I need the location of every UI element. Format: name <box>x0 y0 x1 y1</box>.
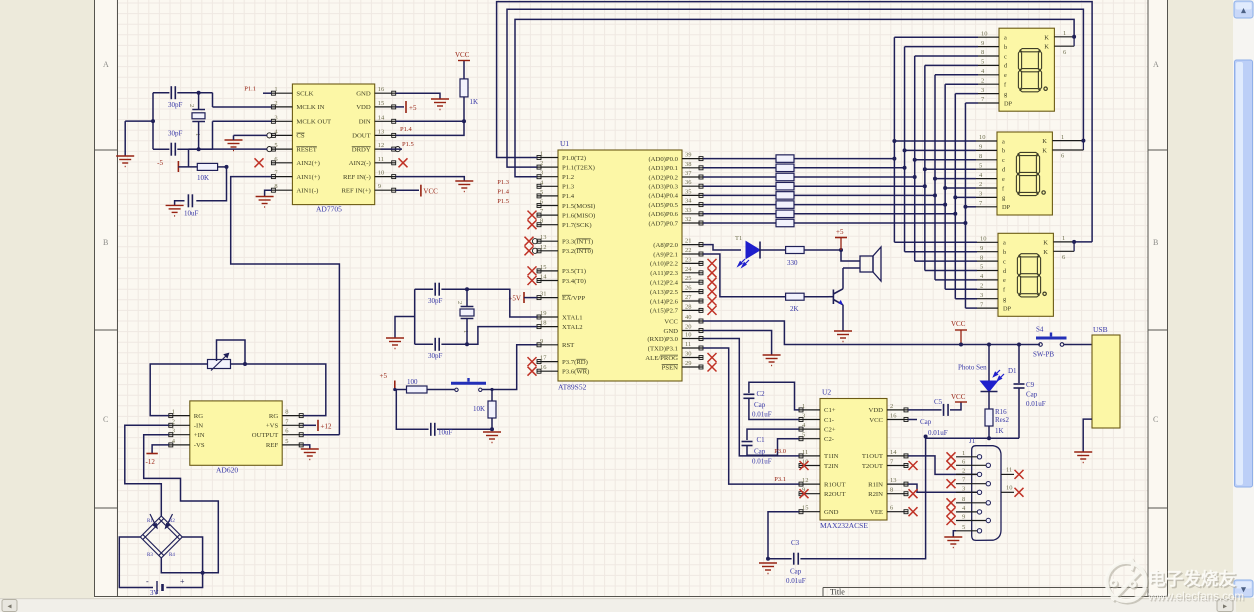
junction <box>225 165 229 169</box>
capacitor 10uF <box>431 423 435 436</box>
svg-text:P3.5(T1): P3.5(T1) <box>562 268 586 275</box>
svg-text:2: 2 <box>456 301 463 304</box>
wire <box>955 298 977 300</box>
svg-text:P1.7(SCK): P1.7(SCK) <box>562 222 592 229</box>
svg-text:T2OUT: T2OUT <box>862 463 883 470</box>
svg-text:Title: Title <box>830 588 845 597</box>
wire <box>198 93 200 109</box>
svg-text:13: 13 <box>378 128 385 135</box>
svg-text:www.elecfans.com: www.elecfans.com <box>1147 590 1244 603</box>
svg-text:C1: C1 <box>757 436 766 444</box>
svg-text:C: C <box>103 415 108 424</box>
wire <box>178 166 197 168</box>
svg-text:b: b <box>1002 148 1005 155</box>
wire <box>935 279 977 281</box>
capacitor 30pF bottom <box>171 143 175 156</box>
resistor R4 <box>776 182 794 190</box>
svg-text:AT89S52: AT89S52 <box>558 383 587 392</box>
svg-text:0.01uF: 0.01uF <box>752 458 772 466</box>
svg-text:9: 9 <box>540 338 543 345</box>
svg-text:+VS: +VS <box>266 423 279 430</box>
svg-text:39: 39 <box>685 152 692 159</box>
wire <box>915 159 976 161</box>
wire <box>152 93 154 150</box>
svg-text:K: K <box>1043 239 1048 246</box>
svg-text:100: 100 <box>407 378 418 386</box>
junction <box>987 343 991 347</box>
svg-text:U2: U2 <box>822 388 831 397</box>
wire <box>747 429 799 440</box>
wire <box>524 297 537 299</box>
no-erc <box>708 268 717 277</box>
wire <box>925 270 977 272</box>
wire VCC rail <box>703 321 1040 345</box>
svg-text:27: 27 <box>685 294 692 301</box>
svg-text:P3.0: P3.0 <box>774 448 786 455</box>
svg-text:10uF: 10uF <box>438 429 453 437</box>
svg-text:10: 10 <box>979 134 986 141</box>
ground <box>256 197 274 208</box>
wire <box>703 222 776 224</box>
svg-text:-: - <box>146 577 149 586</box>
wire <box>945 83 978 85</box>
scrollbar corner <box>1236 598 1254 612</box>
wire <box>905 251 977 253</box>
wire <box>794 213 955 215</box>
svg-text:SCLK: SCLK <box>296 91 313 98</box>
svg-text:1: 1 <box>540 151 543 158</box>
svg-text:330: 330 <box>787 259 798 267</box>
wire <box>794 158 894 160</box>
svg-text:0.01uF: 0.01uF <box>1026 400 1046 408</box>
junction <box>987 436 991 440</box>
svg-text:2: 2 <box>981 77 984 84</box>
svg-text:(AD4)P0.4: (AD4)P0.4 <box>648 193 678 200</box>
svg-text:-IN: -IN <box>194 423 203 430</box>
wire <box>804 249 841 251</box>
scrollbar left button <box>2 600 17 612</box>
J1 pin 7 <box>986 482 990 486</box>
resistor R1 <box>776 155 794 163</box>
wire <box>908 419 917 421</box>
wire <box>189 148 268 150</box>
wire <box>794 204 945 206</box>
wire <box>437 428 492 430</box>
svg-text:1K: 1K <box>470 98 479 106</box>
svg-text:2: 2 <box>980 283 983 290</box>
junction <box>959 343 963 347</box>
J1 pin 10 <box>1001 491 1014 493</box>
wire loop <box>217 340 246 364</box>
svg-text:(TXD)P3.1: (TXD)P3.1 <box>648 345 678 352</box>
J1 pin 2 <box>977 472 981 476</box>
svg-text:EA/VPP: EA/VPP <box>562 295 585 302</box>
svg-text:VCC: VCC <box>455 51 470 59</box>
svg-text:10: 10 <box>1006 484 1013 491</box>
svg-text:(A13)P2.5: (A13)P2.5 <box>650 289 679 296</box>
svg-text:1: 1 <box>1063 30 1066 37</box>
wire <box>1064 344 1092 346</box>
wire <box>303 434 339 436</box>
speaker LS1 <box>860 256 873 272</box>
wire <box>945 288 977 290</box>
wire <box>1018 388 1020 438</box>
svg-text:8: 8 <box>979 153 982 160</box>
switch S4 <box>1039 343 1043 347</box>
junction <box>490 388 493 391</box>
connector J1 DB9 <box>972 446 1001 541</box>
svg-text:K: K <box>1042 148 1047 155</box>
scrollbar thumb <box>1235 60 1253 487</box>
svg-text:PSEN: PSEN <box>662 364 679 371</box>
ground <box>834 331 852 342</box>
svg-text:电子发烧友: 电子发烧友 <box>1148 569 1236 589</box>
wire <box>794 185 925 187</box>
svg-text:R2IN: R2IN <box>868 491 883 498</box>
wire <box>841 250 860 261</box>
junction <box>839 248 843 252</box>
svg-text:P1.6(MISO): P1.6(MISO) <box>562 212 595 219</box>
junction <box>953 212 957 216</box>
wire <box>161 558 218 573</box>
svg-text:(RXD)P3.0: (RXD)P3.0 <box>647 336 678 343</box>
svg-text:REF: REF <box>266 442 279 449</box>
svg-text:8: 8 <box>962 496 965 503</box>
svg-text:30pF: 30pF <box>428 352 443 360</box>
svg-text:AD7705: AD7705 <box>316 205 342 214</box>
wire <box>212 93 214 107</box>
svg-text:b: b <box>1003 249 1006 256</box>
svg-text:(AD5)P0.5: (AD5)P0.5 <box>648 202 678 209</box>
svg-text:9: 9 <box>981 40 984 47</box>
svg-text:P1.5(MOSI): P1.5(MOSI) <box>562 203 595 210</box>
wire <box>800 437 925 559</box>
svg-text:14: 14 <box>378 114 385 121</box>
svg-text:2: 2 <box>962 467 965 474</box>
svg-text:5: 5 <box>274 142 277 149</box>
svg-text:11: 11 <box>378 156 384 163</box>
wire <box>703 204 776 206</box>
connector USB <box>1092 335 1120 428</box>
wire <box>894 36 978 38</box>
svg-text:30pF: 30pF <box>428 297 443 305</box>
svg-text:c: c <box>1003 258 1006 265</box>
svg-text:2: 2 <box>890 403 893 410</box>
J1 pin 4 <box>977 510 981 514</box>
svg-text:a: a <box>1004 35 1007 42</box>
junction <box>903 166 907 170</box>
svg-text:+12: +12 <box>321 422 332 430</box>
svg-text:Cap: Cap <box>754 401 766 409</box>
svg-text:R2OUT: R2OUT <box>824 491 846 498</box>
junction <box>243 362 247 366</box>
vertical scrollbar track <box>1233 0 1254 598</box>
power VCC <box>458 60 470 62</box>
wire <box>212 121 214 149</box>
wire <box>463 61 465 79</box>
no-erc <box>708 278 717 287</box>
svg-text:(A14)P2.6: (A14)P2.6 <box>650 298 679 305</box>
ground <box>386 338 404 349</box>
svg-text:+5: +5 <box>836 228 844 236</box>
svg-text:ALE/PROG: ALE/PROG <box>645 355 678 362</box>
junction <box>892 157 896 161</box>
capacitor C9 <box>1014 384 1025 388</box>
svg-text:C2+: C2+ <box>824 426 836 433</box>
no-erc <box>947 516 956 525</box>
svg-text:5: 5 <box>802 432 805 439</box>
svg-text:14: 14 <box>890 449 897 456</box>
junction <box>201 571 205 575</box>
no-erc <box>1015 470 1024 479</box>
wire <box>794 176 915 178</box>
svg-text:36: 36 <box>685 179 692 186</box>
wire <box>263 92 271 94</box>
wire <box>894 241 977 243</box>
wire <box>265 190 272 196</box>
svg-text:0.01uF: 0.01uF <box>928 429 948 437</box>
svg-text:14: 14 <box>540 274 547 281</box>
resistor 2K <box>786 293 805 300</box>
svg-text:GND: GND <box>824 509 839 516</box>
svg-text:P3.7(RD): P3.7(RD) <box>562 359 588 366</box>
wire <box>988 426 990 438</box>
junction <box>197 91 201 95</box>
wire <box>965 102 978 104</box>
svg-text:C3: C3 <box>791 539 800 547</box>
svg-text:+IN: +IN <box>194 432 205 439</box>
svg-text:5: 5 <box>285 438 288 445</box>
wire <box>950 402 961 410</box>
no-erc <box>528 357 537 366</box>
bus wire seg0 <box>893 37 895 242</box>
bus wire seg7 <box>964 103 966 308</box>
scrollbar up button <box>1234 1 1253 18</box>
svg-text:2: 2 <box>188 104 195 107</box>
bus wire seg2 <box>914 56 916 261</box>
junction <box>462 119 466 123</box>
svg-text:R1OUT: R1OUT <box>824 481 846 488</box>
wire P1.1 to display2 K <box>507 9 1083 167</box>
J1 pin 3 <box>977 490 981 494</box>
svg-text:22: 22 <box>685 247 692 254</box>
svg-text:33: 33 <box>685 207 692 214</box>
wire <box>908 409 942 411</box>
wire <box>842 305 844 331</box>
junction <box>465 342 469 346</box>
svg-text:11: 11 <box>685 341 691 348</box>
svg-text:Photo Sen: Photo Sen <box>958 364 987 372</box>
svg-text:DIN: DIN <box>359 119 371 126</box>
wire <box>491 418 493 429</box>
svg-text:2: 2 <box>979 181 982 188</box>
junction <box>151 119 155 123</box>
svg-text:e: e <box>1004 72 1007 79</box>
wire <box>491 390 493 402</box>
svg-text:T1OUT: T1OUT <box>862 453 883 460</box>
wire <box>915 55 978 57</box>
wire <box>441 327 537 345</box>
transistor Q1 <box>833 289 843 305</box>
wire <box>703 185 776 187</box>
J1 pin 6 <box>986 463 990 467</box>
svg-text:8: 8 <box>981 49 984 56</box>
svg-text:9: 9 <box>378 183 381 190</box>
svg-text:P1.4: P1.4 <box>562 193 575 200</box>
svg-text:RG: RG <box>194 413 203 420</box>
resistor R8 <box>776 219 794 227</box>
junction <box>197 147 201 151</box>
wire <box>905 46 978 48</box>
svg-text:11: 11 <box>1006 466 1012 473</box>
wire <box>427 389 455 391</box>
wire <box>303 445 310 449</box>
capacitor 10uF <box>188 194 192 207</box>
svg-text:10K: 10K <box>473 405 485 413</box>
wire <box>1018 345 1020 384</box>
svg-text:10: 10 <box>980 236 987 243</box>
svg-text:c: c <box>1004 53 1007 60</box>
no-erc <box>708 363 717 372</box>
ground <box>166 205 184 216</box>
svg-text:30pF: 30pF <box>168 101 183 109</box>
no-erc <box>528 367 537 376</box>
junction <box>963 205 967 209</box>
J1 pin 9 <box>986 518 990 522</box>
svg-text:P1.4: P1.4 <box>400 126 412 133</box>
wire <box>303 424 316 426</box>
svg-text:(AD2)P0.2: (AD2)P0.2 <box>648 174 678 181</box>
svg-text:12: 12 <box>378 142 385 149</box>
wire <box>1074 241 1092 243</box>
svg-text:+: + <box>180 577 185 586</box>
photodiode D1 <box>981 381 998 392</box>
svg-text:5: 5 <box>962 524 965 531</box>
svg-text:REF IN(+): REF IN(+) <box>341 188 370 195</box>
svg-text:(AD3)P0.3: (AD3)P0.3 <box>648 184 678 191</box>
svg-text:17: 17 <box>540 355 547 362</box>
svg-text:12: 12 <box>802 477 809 484</box>
svg-text:C1+: C1+ <box>824 407 836 414</box>
wire <box>794 194 935 196</box>
svg-text:3: 3 <box>980 292 983 299</box>
wire <box>843 267 860 269</box>
svg-text:DP: DP <box>1002 204 1011 211</box>
svg-text:J1: J1 <box>969 437 976 445</box>
junction <box>923 167 927 171</box>
wire <box>119 537 153 588</box>
wire <box>124 121 126 156</box>
svg-text:XTAL2: XTAL2 <box>562 324 583 331</box>
svg-text:(A15)P2.7: (A15)P2.7 <box>650 308 679 315</box>
wire <box>153 92 169 94</box>
svg-text:8: 8 <box>890 487 893 494</box>
ground <box>431 99 449 110</box>
wire <box>395 390 429 430</box>
svg-text:1: 1 <box>802 403 805 410</box>
svg-text:C5: C5 <box>934 398 943 406</box>
wire <box>233 135 235 140</box>
svg-text:RESET: RESET <box>296 146 316 153</box>
junction <box>892 139 896 143</box>
wire <box>703 331 772 356</box>
svg-text:P1.5: P1.5 <box>402 141 414 148</box>
wire <box>703 158 776 160</box>
wire <box>760 249 786 251</box>
wire <box>466 289 468 306</box>
no-erc <box>800 461 809 470</box>
svg-text:3V: 3V <box>150 589 159 597</box>
svg-text:R2: R2 <box>169 519 175 524</box>
svg-text:AIN2(+): AIN2(+) <box>296 160 319 167</box>
resistor 10K <box>488 401 496 418</box>
wire <box>703 245 741 250</box>
svg-text:2: 2 <box>172 418 175 425</box>
svg-text:D1: D1 <box>1008 367 1017 375</box>
no-erc <box>1015 488 1024 497</box>
svg-text:25: 25 <box>685 275 692 282</box>
wire <box>945 187 976 189</box>
svg-text:Cap: Cap <box>920 418 932 426</box>
svg-text:3: 3 <box>540 170 543 177</box>
no-erc <box>528 266 537 275</box>
svg-text:AIN1(+): AIN1(+) <box>296 174 319 181</box>
wire <box>441 289 537 317</box>
bridge resistors <box>140 514 182 558</box>
wire <box>908 484 978 492</box>
svg-text:37: 37 <box>685 170 692 177</box>
wire <box>415 288 433 290</box>
svg-text:R3: R3 <box>147 553 153 558</box>
svg-text:3: 3 <box>981 87 984 94</box>
svg-text:U1: U1 <box>560 139 569 148</box>
svg-text:AIN2(-): AIN2(-) <box>349 160 371 167</box>
wire <box>396 106 404 108</box>
wire <box>905 149 976 151</box>
wire <box>381 148 403 150</box>
svg-text:AD620: AD620 <box>216 466 238 475</box>
svg-text:9: 9 <box>962 514 965 521</box>
svg-text:(A12)P2.4: (A12)P2.4 <box>650 280 679 287</box>
ground <box>944 537 962 548</box>
wire P3.1 <box>703 348 799 484</box>
bus wire seg4 <box>934 75 936 280</box>
svg-text:(AD1)P0.1: (AD1)P0.1 <box>648 165 678 172</box>
svg-text:5: 5 <box>980 264 983 271</box>
wire <box>703 213 776 215</box>
J1 pin 5 <box>977 529 981 533</box>
7-segment display DS2 <box>997 132 1052 215</box>
svg-text:26: 26 <box>685 285 692 292</box>
no-erc <box>909 507 918 516</box>
svg-text:0.01uF: 0.01uF <box>752 411 772 419</box>
svg-text:T1: T1 <box>735 235 742 242</box>
wire <box>177 148 212 150</box>
capacitor C5 <box>944 404 949 416</box>
wire <box>234 134 268 136</box>
svg-text:K: K <box>1043 249 1048 256</box>
no-erc <box>708 259 717 268</box>
svg-text:T1IN: T1IN <box>824 453 839 460</box>
svg-text:Cap: Cap <box>790 568 802 576</box>
no-erc <box>909 461 918 470</box>
wire <box>150 364 207 416</box>
svg-text:29: 29 <box>685 360 692 367</box>
svg-text:P3.4(T0): P3.4(T0) <box>562 278 586 285</box>
svg-text:VDD: VDD <box>869 407 884 414</box>
power VCC <box>420 185 422 197</box>
wire <box>166 537 202 588</box>
